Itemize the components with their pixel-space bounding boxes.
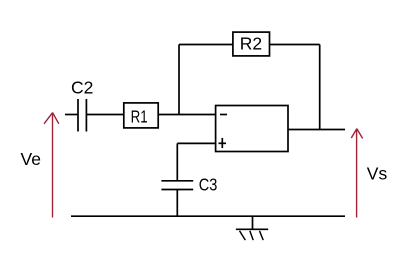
wire output [288,129,345,131]
svg-text:C3: C3 [199,175,218,195]
svg-text:Vs: Vs [367,164,388,184]
wire C2 to R1 [87,114,124,116]
wire R2 to right vertical [270,44,320,46]
svg-text:C2: C2 [71,77,93,97]
wire plus input horizontal [177,142,215,144]
ground [236,216,268,240]
wire bottom rail [71,215,345,217]
resistor R1 [124,103,158,128]
wire input left [65,114,78,116]
wire top left to R2 [179,44,233,46]
svg-text:R2: R2 [240,33,262,53]
arrow Vs [351,129,362,218]
wire feedback left vertical [178,45,180,115]
op-amp U1 [216,106,288,152]
resistor R2 [233,32,270,56]
wire feedback right vertical [319,45,321,130]
svg-text:Ve: Ve [21,149,41,169]
svg-text:R1: R1 [131,106,148,126]
capacitor C3 [161,181,193,190]
wire C3 to ground rail [176,190,178,217]
wire plus input vertical down to C3 [176,143,178,180]
wire R1 to op-amp minus input [158,114,215,116]
arrow Ve [44,113,59,218]
capacitor C2 [78,99,86,132]
